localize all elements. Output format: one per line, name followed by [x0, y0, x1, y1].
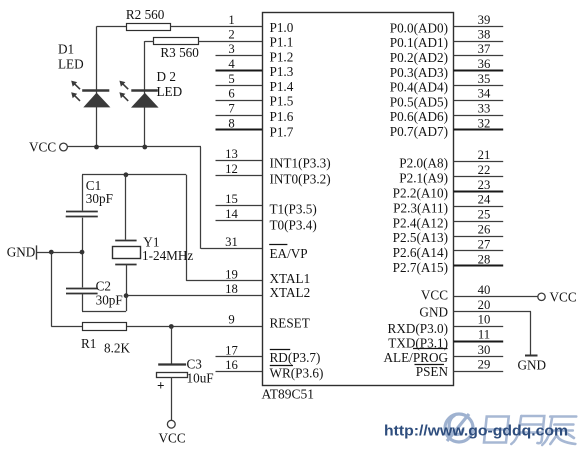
svg-text:38: 38 — [478, 28, 491, 42]
svg-text:VCC: VCC — [159, 431, 186, 446]
svg-text:8: 8 — [228, 116, 234, 130]
svg-text:34: 34 — [478, 87, 491, 101]
pin 32 (P0.7(AD7)) stub, number and label — [390, 116, 503, 139]
svg-text:P2.7(A15): P2.7(A15) — [393, 260, 448, 275]
D1 emission arrows — [71, 81, 80, 101]
pin 14 (T0(P3.4)) stub, number and label — [216, 207, 317, 232]
pin 9 (RESET) stub, number and label — [228, 313, 309, 331]
svg-text:D1: D1 — [58, 42, 74, 57]
pin 29 (PSEN) stub, number and label — [415, 358, 504, 380]
svg-text:P2.6(A14): P2.6(A14) — [393, 245, 448, 260]
pin 37 (P0.2(AD2)) stub, number and label — [390, 42, 503, 65]
wire VCC rail to EA/VP pin 31 — [67, 147, 262, 249]
svg-text:29: 29 — [478, 358, 491, 372]
pin 18 (XTAL2) stub, number and label — [225, 282, 310, 300]
svg-text:35: 35 — [478, 72, 491, 86]
svg-text:P0.5(AD5): P0.5(AD5) — [390, 94, 448, 109]
svg-text:13: 13 — [225, 147, 238, 161]
svg-text:3: 3 — [228, 42, 234, 56]
LED D1 — [58, 26, 110, 147]
svg-text:32: 32 — [478, 116, 491, 130]
svg-text:C2: C2 — [96, 279, 111, 294]
junction dot RESET-C3 — [169, 324, 174, 329]
junction dot GND-C1C2 — [80, 250, 85, 255]
svg-text:AT89C51: AT89C51 — [262, 387, 315, 402]
svg-text:P0.2(AD2): P0.2(AD2) — [390, 50, 448, 65]
svg-text:P1.2: P1.2 — [270, 49, 294, 64]
svg-text:26: 26 — [478, 223, 491, 237]
svg-text:PSEN: PSEN — [416, 364, 449, 379]
pin 33 (P0.6(AD6)) stub, number and label — [390, 102, 503, 125]
svg-text:P0.1(AD1): P0.1(AD1) — [390, 35, 448, 50]
svg-text:1: 1 — [228, 13, 234, 27]
svg-text:P0.6(AD6): P0.6(AD6) — [390, 109, 448, 124]
svg-text:18: 18 — [225, 282, 238, 296]
resistor R2 — [126, 7, 171, 31]
pin 22 (P2.1(A9)) stub, number and label — [399, 163, 503, 186]
svg-text:C3: C3 — [187, 357, 203, 372]
svg-text:11: 11 — [478, 328, 490, 342]
pin 10 (RXD(P3.0)) stub, number and label — [388, 313, 504, 336]
svg-text:9: 9 — [228, 313, 234, 327]
pin 19 (XTAL1) stub, number and label — [225, 267, 310, 286]
svg-text:31: 31 — [225, 235, 238, 249]
svg-text:R1: R1 — [81, 336, 96, 351]
svg-text:P0.7(AD7): P0.7(AD7) — [390, 124, 448, 139]
pin 36 (P0.3(AD3)) stub, number and label — [390, 57, 503, 80]
svg-text:T1(P3.5): T1(P3.5) — [270, 202, 317, 217]
pin 16 (WR(P3.6)) stub, number and label — [216, 358, 324, 380]
junction dot D2-VCC — [142, 145, 147, 150]
wire pin1 to R2 and R2 to D1 — [97, 26, 263, 28]
pin 20 (GND) stub, number and label — [419, 298, 531, 320]
svg-text:36: 36 — [478, 57, 491, 71]
svg-text:ALE/PROG: ALE/PROG — [384, 350, 449, 365]
svg-text:WR(P3.6): WR(P3.6) — [270, 366, 324, 381]
pin 15 (T1(P3.5)) stub, number and label — [216, 192, 317, 216]
svg-text:17: 17 — [225, 343, 238, 357]
pin 30 (ALE-PROG) stub, number and label — [384, 343, 504, 365]
VCC terminal bottom — [159, 420, 186, 445]
svg-text:P2.2(A10): P2.2(A10) — [393, 186, 448, 201]
svg-text:VCC: VCC — [421, 288, 448, 303]
svg-text:23: 23 — [478, 178, 491, 192]
svg-text:RESET: RESET — [270, 316, 310, 331]
resistor R3 — [154, 38, 200, 61]
pin 40 (VCC) stub, number and label — [421, 283, 538, 303]
svg-text:INT0(P3.2): INT0(P3.2) — [270, 171, 331, 186]
pin 1 (P1.0) stub, number and label — [228, 13, 293, 35]
pin 17 (RD(P3.7)) stub, number and label — [216, 343, 321, 365]
svg-text:19: 19 — [225, 267, 238, 281]
svg-text:37: 37 — [478, 42, 491, 56]
wire XTAL2 net to pin 18 — [126, 295, 262, 297]
pin 27 (P2.6(A14)) stub, number and label — [393, 237, 504, 260]
pin 39 (P0.0(AD0)) stub, number and label — [390, 13, 503, 36]
svg-text:2: 2 — [228, 28, 234, 42]
svg-text:P1.7: P1.7 — [270, 125, 294, 140]
svg-text:P1.6: P1.6 — [270, 109, 294, 124]
pin 12 (INT0(P3.2)) stub, number and label — [216, 162, 331, 186]
pin 28 (P2.7(A15)) stub, number and label — [393, 252, 504, 275]
svg-text:RD(P3.7): RD(P3.7) — [270, 350, 321, 365]
pin 26 (P2.5(A13)) stub, number and label — [393, 223, 504, 246]
svg-text:P2.1(A9): P2.1(A9) — [399, 171, 448, 186]
svg-text:GND: GND — [419, 305, 448, 320]
junction dot GND-R1 branch — [49, 250, 54, 255]
ground terminal GND left — [7, 244, 82, 259]
pin 13 (INT1(P3.3)) stub, number and label — [216, 147, 331, 171]
svg-text:28: 28 — [478, 252, 491, 266]
svg-text:XTAL1: XTAL1 — [270, 271, 311, 286]
svg-text:GND: GND — [7, 244, 36, 259]
svg-text:INT1(P3.3): INT1(P3.3) — [270, 155, 331, 170]
pin 7 (P1.6) stub, number and label — [216, 102, 294, 125]
svg-text:XTAL2: XTAL2 — [270, 285, 311, 300]
svg-text:GND: GND — [518, 358, 547, 373]
svg-text:P0.4(AD4): P0.4(AD4) — [390, 80, 448, 95]
junction dot D1-VCC — [94, 145, 99, 150]
wire GND down to R1 — [51, 252, 53, 327]
svg-text:10: 10 — [478, 313, 491, 327]
pin 31 (EA-VP) stub, number and label — [225, 235, 307, 261]
svg-text:7: 7 — [228, 102, 234, 116]
svg-text:22: 22 — [478, 163, 491, 177]
capacitor C3 (electrolytic) — [157, 327, 214, 421]
pin 6 (P1.5) stub, number and label — [216, 87, 294, 109]
pin 8 (P1.7) stub, number and label — [216, 116, 294, 139]
capacitor C1 — [66, 175, 113, 252]
wire R1 to RESET pin 9 — [127, 326, 262, 328]
svg-text:LED: LED — [58, 56, 84, 71]
svg-text:P1.4: P1.4 — [270, 79, 294, 94]
svg-text:RXD(P3.0): RXD(P3.0) — [388, 321, 448, 336]
svg-text:25: 25 — [478, 208, 491, 222]
svg-text:P1.3: P1.3 — [270, 64, 294, 79]
svg-text:P2.4(A12): P2.4(A12) — [393, 215, 448, 230]
svg-text:14: 14 — [225, 207, 238, 221]
pin 21 (P2.0(A8)) stub, number and label — [399, 148, 503, 171]
svg-text:24: 24 — [478, 193, 491, 207]
svg-text:27: 27 — [478, 237, 491, 251]
svg-text:21: 21 — [478, 148, 491, 162]
svg-text:D 2: D 2 — [157, 69, 176, 84]
watermark characters (vector approximation of CJK glyphs) — [483, 416, 578, 445]
pin 35 (P0.4(AD4)) stub, number and label — [390, 72, 503, 95]
svg-text:12: 12 — [225, 162, 238, 176]
svg-text:20: 20 — [478, 298, 491, 312]
svg-text:http://www.go-gddq.com: http://www.go-gddq.com — [384, 423, 568, 440]
ground symbol right (pin 20) — [518, 311, 547, 372]
pin 25 (P2.4(A12)) stub, number and label — [393, 208, 504, 231]
svg-text:P1.5: P1.5 — [270, 94, 294, 109]
svg-text:1-24MHz: 1-24MHz — [142, 248, 193, 263]
pin 34 (P0.5(AD5)) stub, number and label — [390, 87, 503, 110]
svg-text:R2 560: R2 560 — [126, 7, 165, 22]
pin 24 (P2.3(A11)) stub, number and label — [393, 193, 503, 216]
svg-text:VCC: VCC — [29, 139, 56, 154]
VCC terminal left — [29, 139, 67, 154]
svg-text:EA/VP: EA/VP — [270, 246, 308, 261]
svg-text:33: 33 — [478, 102, 491, 116]
VCC terminal right (pin 40) — [538, 289, 577, 304]
svg-text:T0(P3.4): T0(P3.4) — [270, 217, 317, 232]
pin 2 (P1.1) stub, number and label — [228, 28, 293, 50]
svg-text:LED: LED — [157, 84, 183, 99]
svg-text:10uF: 10uF — [187, 371, 214, 386]
svg-text:+: + — [157, 378, 165, 393]
svg-text:R3 560: R3 560 — [160, 45, 199, 60]
svg-text:P2.0(A8): P2.0(A8) — [399, 156, 448, 171]
svg-text:P2.5(A13): P2.5(A13) — [393, 230, 448, 245]
svg-text:P1.0: P1.0 — [270, 20, 294, 35]
capacitor C2 — [66, 252, 127, 311]
pin 5 (P1.4) stub, number and label — [216, 72, 294, 94]
svg-text:P2.3(A11): P2.3(A11) — [393, 200, 448, 215]
svg-text:6: 6 — [228, 87, 234, 101]
D2 emission arrows — [119, 81, 128, 101]
svg-text:VCC: VCC — [550, 289, 577, 304]
svg-text:30pF: 30pF — [96, 293, 123, 308]
wire XTAL1 net top rail — [82, 175, 262, 281]
svg-text:8.2K: 8.2K — [104, 341, 130, 356]
svg-text:30pF: 30pF — [86, 191, 113, 206]
junction dot crystal top — [124, 172, 129, 177]
LED D2 — [131, 41, 182, 147]
watermark logo circle — [445, 414, 473, 442]
pin 3 (P1.2) stub, number and label — [216, 42, 294, 64]
resistor R1 — [51, 323, 130, 356]
svg-text:P0.0(AD0): P0.0(AD0) — [390, 21, 448, 36]
pin 11 (TXD(P3.1)) stub, number and label — [388, 328, 503, 351]
op IC U1 AT89C51 body — [263, 13, 454, 386]
svg-text:16: 16 — [225, 358, 238, 372]
svg-text:15: 15 — [225, 192, 238, 206]
svg-text:P1.1: P1.1 — [270, 35, 294, 50]
svg-text:4: 4 — [228, 57, 235, 71]
pin 38 (P0.1(AD1)) stub, number and label — [390, 28, 503, 51]
svg-text:30: 30 — [478, 343, 491, 357]
junction dot XTAL2 — [124, 293, 129, 298]
svg-text:40: 40 — [478, 283, 491, 297]
svg-text:5: 5 — [228, 72, 234, 86]
svg-text:P0.3(AD3): P0.3(AD3) — [390, 65, 448, 80]
svg-text:39: 39 — [478, 13, 491, 27]
pin 4 (P1.3) stub, number and label — [216, 57, 294, 79]
wire pin2 to R3 and R3 to D2 — [145, 41, 262, 43]
crystal Y1 — [113, 175, 194, 296]
pin 23 (P2.2(A10)) stub, number and label — [393, 178, 504, 201]
